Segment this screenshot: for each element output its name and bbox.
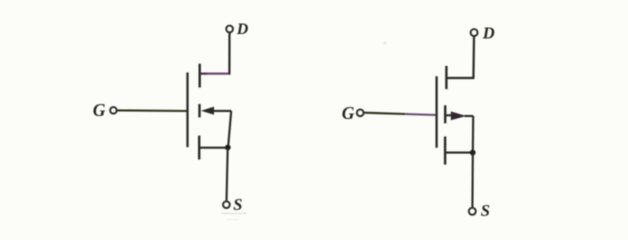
scan speck artifact (383, 41, 386, 44)
transistor Q1 drain channel bar (198, 64, 200, 88)
transistor Q2 body channel bar (444, 105, 446, 123)
transistor Q1 body channel bar (198, 104, 200, 117)
wire G lead (right, dark segment) (364, 113, 405, 114)
transistor Q2 drain channel bar (445, 66, 447, 89)
wire G lead (right, purple tinted segment) (405, 114, 436, 115)
terminal circle D (left) (226, 26, 233, 33)
arrow body terminal (right, P-channel, pointing away from channel) (451, 111, 466, 120)
wire source down to S (left) (227, 148, 228, 202)
transistor Q1 source channel bar (198, 136, 200, 160)
wire body down to source junction (right) (472, 116, 475, 153)
arrow body terminal (left, N-channel, pointing toward channel) (201, 107, 214, 115)
transistor Q2 gate electrode bar (435, 76, 437, 148)
wire body lead stub (right) (446, 114, 455, 116)
wire drain vertical up to D (left) (228, 33, 230, 75)
wire drain vertical up to D (right) (472, 36, 475, 79)
terminal circle S (left) (223, 201, 230, 208)
wire drain horizontal (right) (447, 77, 474, 79)
svg-text:D: D (482, 24, 495, 43)
wire body lead horizontal (left) (213, 110, 231, 112)
wire G lead (left) (117, 109, 188, 112)
wire source horizontal (left) (200, 147, 229, 149)
transistor Q2 source channel bar (444, 137, 446, 165)
terminal circle D (right) (471, 29, 478, 36)
svg-text:D: D (236, 21, 249, 38)
scan smudge artifact below left S (221, 213, 247, 215)
svg-text:G: G (342, 103, 355, 123)
wire body down to source junction (left) (228, 111, 231, 147)
wire drain horizontal dark cap at channel end (201, 72, 208, 74)
transistor Q1 gate electrode bar (186, 73, 188, 148)
terminal circle G (left) (110, 107, 117, 114)
svg-text:G: G (93, 100, 106, 120)
wire body lead horizontal (right) (465, 115, 474, 117)
junction dot (right) (470, 150, 476, 156)
junction dot (left) (225, 145, 231, 151)
wire source horizontal (right) (446, 152, 473, 154)
svg-text:S: S (481, 201, 490, 220)
svg-text:S: S (233, 195, 242, 214)
wire drain horizontal (left, purple tint) (201, 72, 230, 74)
terminal circle S (right) (469, 208, 476, 215)
terminal circle G (right) (357, 109, 364, 116)
wire source down to S (right) (471, 153, 473, 208)
